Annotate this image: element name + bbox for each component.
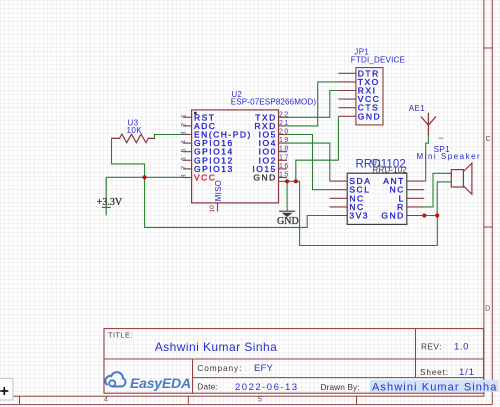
junction dot RRD GND node B [435,213,439,217]
junction dot RRD GND node A [422,213,426,217]
svg-text:Company:: Company: [197,363,242,373]
svg-text:1: 1 [180,114,187,118]
U1 RRD-102 module body [347,173,407,224]
U2 pin 21 RXD [254,120,289,131]
svg-text:C: C [486,136,491,143]
svg-text:MISO: MISO [214,180,223,201]
small dash mark near speaker [439,137,444,139]
canvas origin + button [0,378,13,400]
svg-text:17: 17 [279,154,290,161]
wire GND net to RRD GND [300,181,438,245]
JP1 pin CTS [338,103,379,113]
svg-text:3: 3 [180,131,187,135]
op-amp U2 ESP-07ESP8266MOD chip body [192,110,279,203]
U2 pin 5 GPIO14 [180,147,233,157]
svg-text:15: 15 [279,172,290,179]
U2 pin 2 ADC [180,121,216,131]
junction dot GND node A [285,179,289,183]
U1 pin 3V3 (left 5) [330,211,369,221]
antenna AE1 [409,104,436,136]
wire TXD to JP1 RXI [287,91,338,118]
wire 3.3V rail to RRD 3V3 pin [145,177,330,227]
svg-text:ESP-07ESP8266MOD): ESP-07ESP8266MOD) [231,98,317,107]
svg-text:21: 21 [279,120,290,127]
U1 pin L (right 3) [399,193,425,203]
svg-text:Sheet:: Sheet: [420,367,449,377]
speaker SP1 Mini Speaker [417,144,482,194]
svg-text:Drawn By:: Drawn By: [321,382,360,392]
svg-text:4: 4 [104,397,108,404]
U1 pin SDA (left 1) [330,176,372,186]
svg-text:2: 2 [180,123,187,127]
title block frame [104,329,484,394]
wire GND pin net segment [279,180,300,182]
svg-text:2022-06-13: 2022-06-13 [235,382,299,393]
junction dot VCC/+3.3V node [143,175,147,179]
U2 pin 8 VCC [180,173,216,183]
svg-text:5: 5 [258,397,262,404]
svg-text:REV:: REV: [421,341,442,351]
svg-text:8: 8 [180,174,187,178]
junction dot GND node B [294,179,298,183]
U1 pin NC (right 2) [390,185,425,195]
svg-text:10K: 10K [127,126,143,135]
svg-text:Ashwini Kumar Sinha: Ashwini Kumar Sinha [155,340,278,354]
U1 pin GND (right 5) [381,211,424,221]
svg-text:FTDI_DEVICE: FTDI_DEVICE [351,56,405,65]
svg-text:+3.3V: +3.3V [97,197,123,208]
svg-text:22: 22 [279,111,290,118]
svg-text:3V3: 3V3 [349,211,369,221]
svg-text:AE1: AE1 [409,104,425,113]
U2 pin 16 IO15 [252,163,289,174]
U1 pin SCL (left 2) [330,185,371,195]
wire RRD R to speaker top terminal [424,173,451,207]
JP1 pin DTR [338,68,379,78]
U2 pin 6 GPIO12 [180,155,233,165]
U2 pin 20 IO5 [259,129,290,140]
wire RXD to JP1 TXO [287,82,338,126]
svg-text:18: 18 [279,146,290,153]
wire resistor left lead down to VCC row junction [112,138,145,177]
JP1 pin VCC [338,94,380,104]
Drawn By value Ashwini Kumar Sinha (selected) [370,380,499,394]
wire speaker bottom terminal to GND rail [437,182,451,216]
U2 pin 18 IO0 [259,146,290,157]
svg-text:10: 10 [209,205,216,213]
svg-text:1/1: 1/1 [459,367,475,378]
U2 pin 4 GPIO16 [180,138,233,148]
U2 pin 7 GPIO13 [180,164,233,174]
svg-text:Mini Speaker: Mini Speaker [417,152,482,161]
connector JP1 body [356,68,383,125]
svg-text:GND: GND [381,211,404,221]
wire GND net to JP1 GND [296,116,339,181]
svg-text:20: 20 [279,129,290,136]
wire resistor right lead to EN(CH-PD) pin [148,135,183,139]
U1 pin ANT (right 1) [383,176,424,186]
U1 pin R (right 4) [397,202,424,212]
U2 pin 1 RST [180,112,215,122]
U2 pin 10 MISO (bottom) [209,180,223,213]
svg-text:Ashwini Kumar Sinha: Ashwini Kumar Sinha [372,381,497,393]
resistor U3 10K [112,118,155,142]
EasyEDA logo [105,372,191,391]
JP1 pin RXI [338,86,376,96]
wire IO4 to RRD SDA [287,143,330,181]
power symbol +3.3V [97,177,123,215]
U2 pin 15 GND [253,172,289,183]
U2 pin 3 EN(CH-PD) [180,130,251,140]
wire RRD ANT to antenna AE1 [424,136,428,181]
JP1 pin GND [338,111,381,121]
svg-text:Date:: Date: [197,382,218,392]
svg-text:GND: GND [277,216,299,227]
svg-text:TITLE:: TITLE: [108,330,133,339]
svg-text:4: 4 [180,140,187,144]
JP1 pin TXO [338,77,379,87]
U2 pin 17 IO2 [259,154,290,165]
U1 pin NC (left 4) [330,202,365,212]
svg-text:5: 5 [180,148,187,152]
wire +3.3V to VCC pin row [106,176,183,178]
ground symbol GND [277,181,299,227]
svg-text:16: 16 [279,163,290,170]
svg-text:EFY: EFY [254,363,274,374]
svg-text:GND: GND [358,111,381,121]
wire IO5 to RRD SCL [287,135,330,190]
svg-text:VCC: VCC [194,173,216,183]
svg-text:7: 7 [180,166,187,170]
svg-text:6: 6 [180,157,187,161]
svg-text:1.0: 1.0 [454,341,469,352]
svg-text:GND: GND [253,173,276,183]
U2 pin 22 TXD [255,111,289,122]
svg-text:D: D [485,306,490,313]
U2 pin 19 IO4 [259,137,290,148]
svg-text:EasyEDA: EasyEDA [130,375,191,391]
U1 pin NC (left 3) [330,193,365,203]
svg-text:19: 19 [279,137,290,144]
